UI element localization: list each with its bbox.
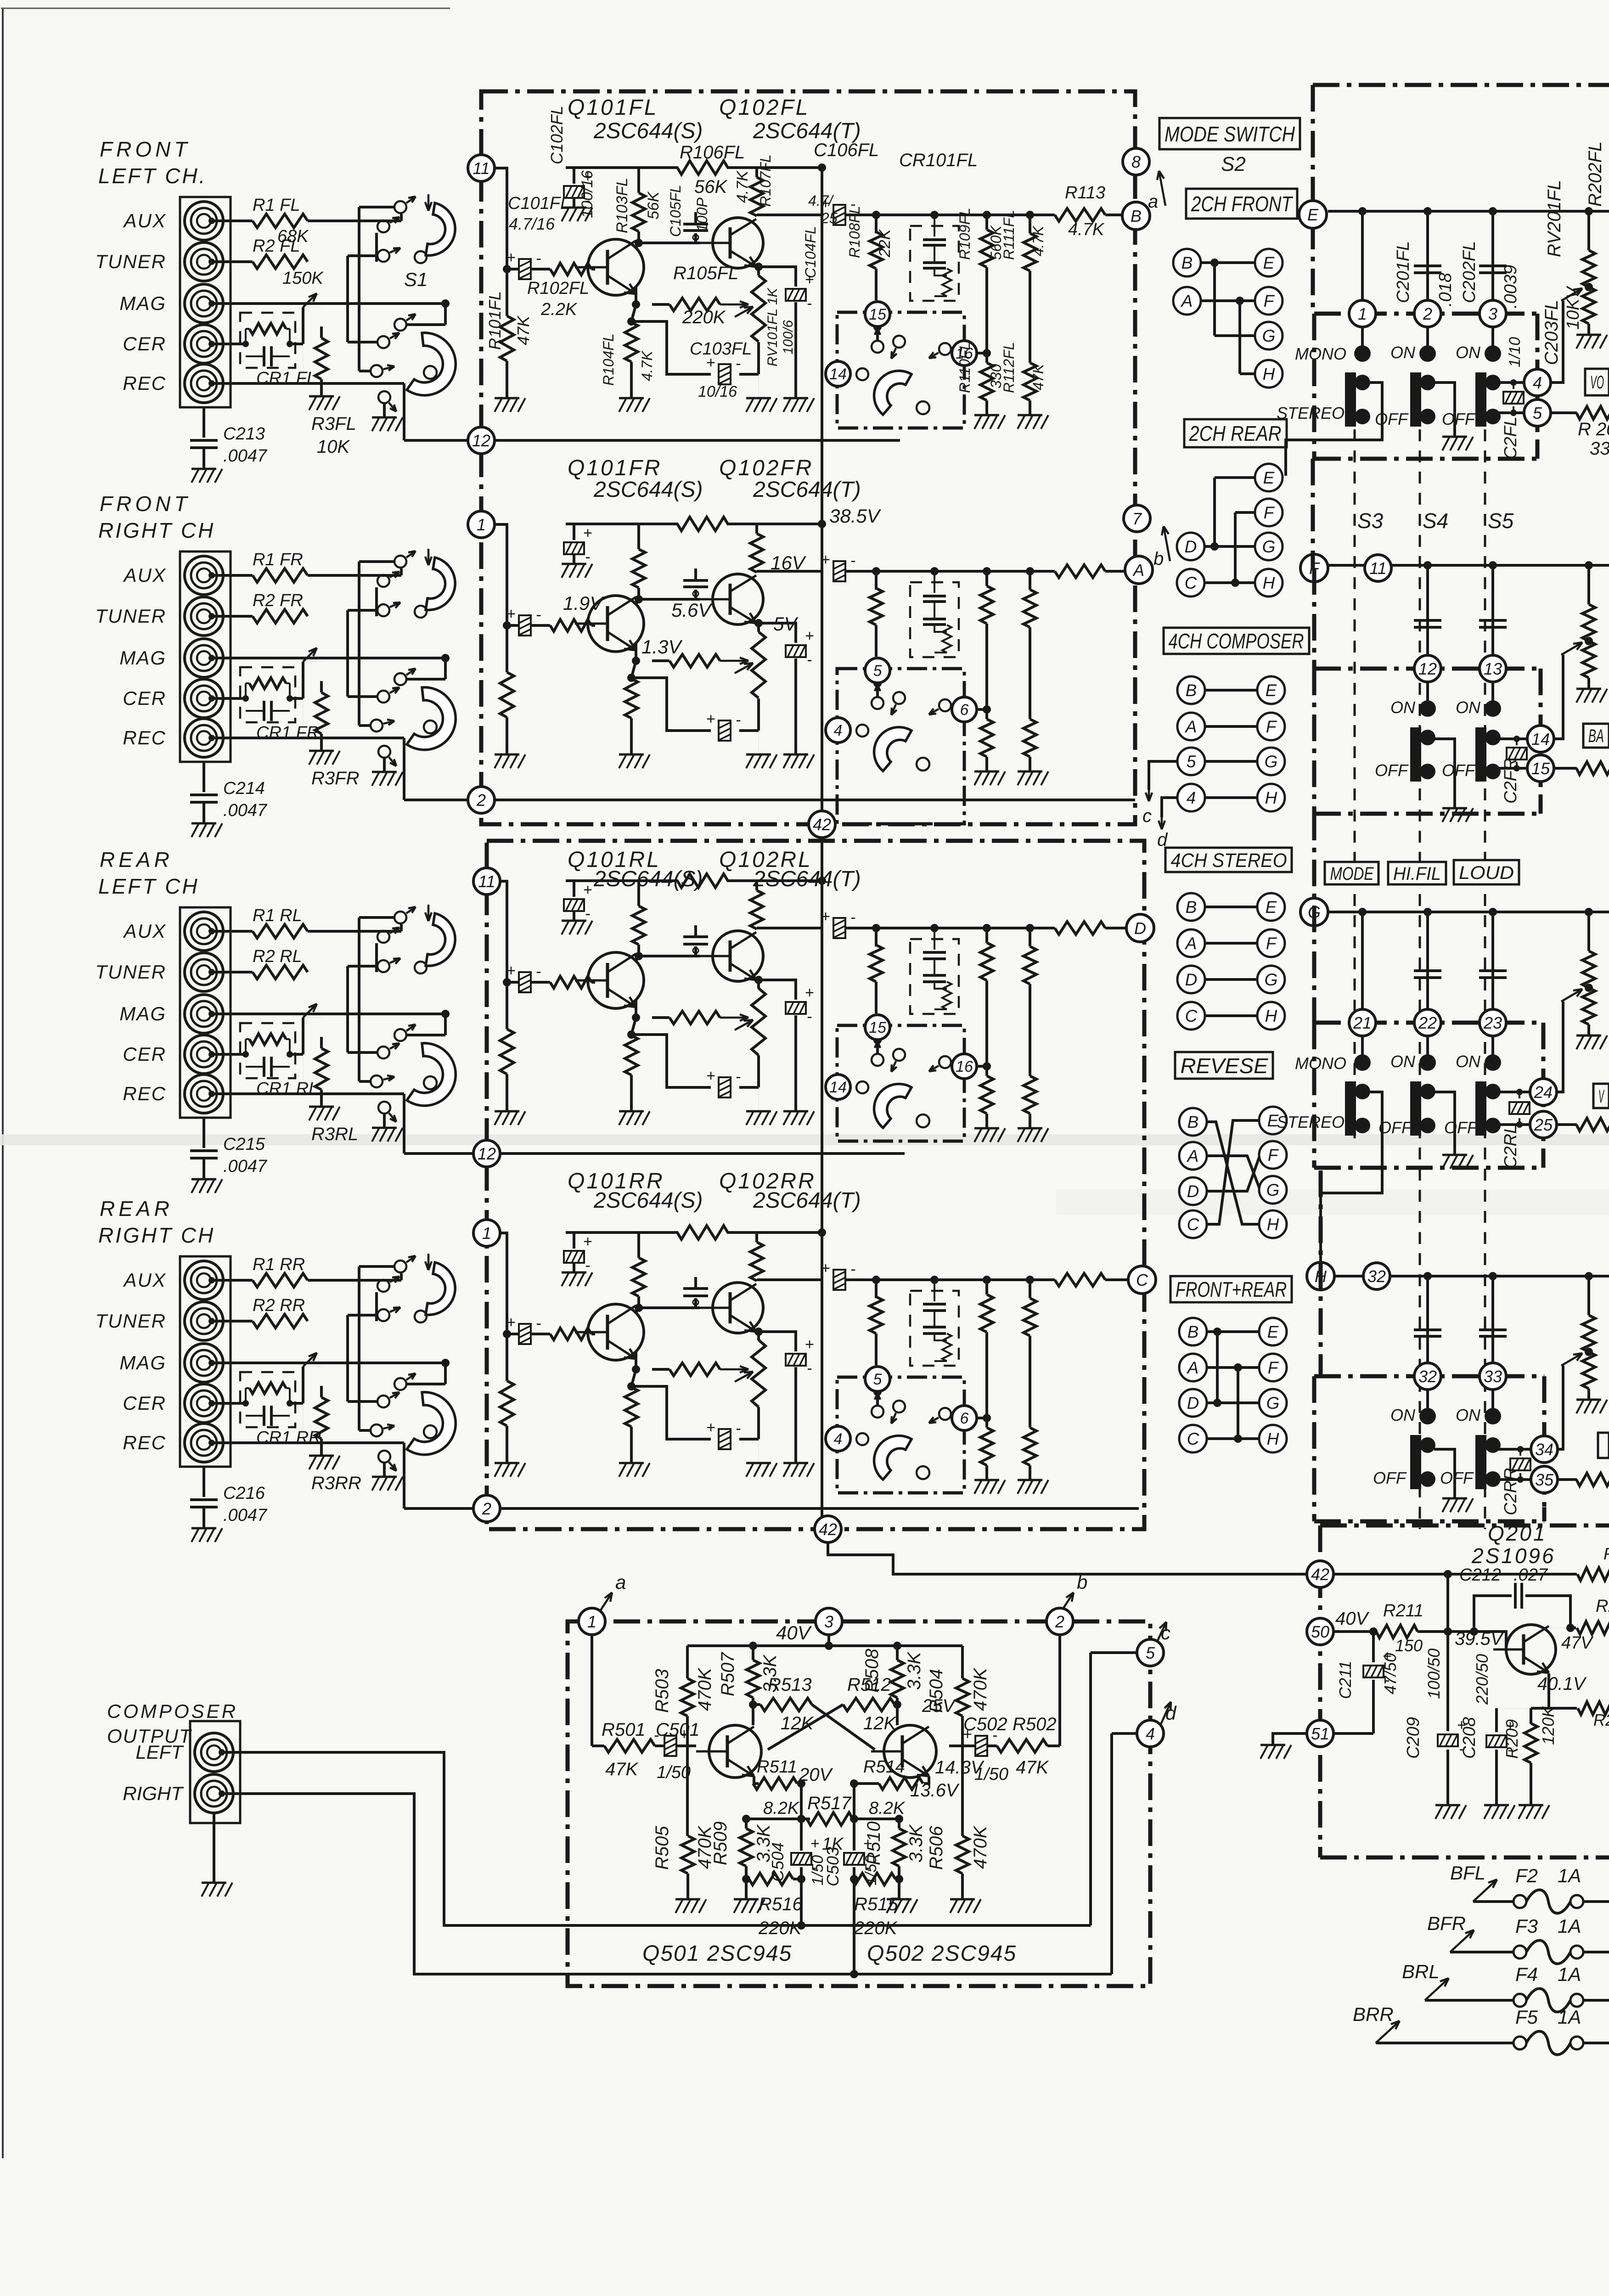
svg-text:H: H	[1265, 788, 1277, 807]
svg-text:R109FL: R109FL	[956, 208, 973, 260]
svg-text:BRL: BRL	[1402, 1961, 1440, 1982]
svg-text:c: c	[1142, 806, 1152, 826]
svg-text:E: E	[1307, 205, 1319, 224]
svg-text:15: 15	[869, 1019, 886, 1036]
svg-text:REVESE: REVESE	[1181, 1054, 1269, 1078]
svg-text:LEFT CH.: LEFT CH.	[98, 164, 207, 188]
svg-text:C2FR: C2FR	[1501, 758, 1520, 804]
svg-text:1/50: 1/50	[657, 1763, 691, 1782]
svg-text:56K: 56K	[694, 177, 728, 197]
svg-text:220K: 220K	[758, 1918, 803, 1938]
svg-text:3.3K: 3.3K	[906, 1823, 926, 1863]
svg-text:R110FL: R110FL	[956, 342, 973, 393]
svg-text:F3: F3	[1515, 1915, 1538, 1937]
svg-text:REC: REC	[123, 1432, 166, 1453]
svg-text:100/16: 100/16	[579, 170, 596, 218]
svg-text:C212: C212	[1459, 1565, 1501, 1585]
svg-text:Q102FL: Q102FL	[719, 96, 810, 120]
svg-text:MAG: MAG	[119, 1352, 166, 1373]
svg-text:R2 RL: R2 RL	[253, 947, 302, 966]
svg-text:R111FL: R111FL	[1001, 210, 1017, 260]
svg-text:4: 4	[834, 1430, 843, 1448]
svg-text:D: D	[1134, 919, 1146, 938]
svg-text:R103FL: R103FL	[613, 178, 631, 233]
svg-text:F4: F4	[1515, 1964, 1538, 1985]
svg-text:MAG: MAG	[119, 293, 166, 314]
svg-text:CER: CER	[123, 687, 166, 709]
svg-text:C2FL: C2FL	[1501, 416, 1520, 459]
svg-text:32: 32	[1367, 1267, 1386, 1286]
svg-text:A: A	[1185, 717, 1197, 736]
svg-text:OFF: OFF	[1378, 1118, 1412, 1137]
svg-text:V: V	[1598, 1086, 1604, 1107]
svg-text:42: 42	[819, 1520, 837, 1539]
svg-text:FRONT: FRONT	[100, 492, 191, 516]
svg-text:F2: F2	[1515, 1865, 1538, 1886]
svg-text:R112FL: R112FL	[1001, 342, 1017, 393]
svg-text:-: -	[807, 295, 812, 312]
svg-text:47/50: 47/50	[1381, 1653, 1400, 1694]
svg-text:C202FL: C202FL	[1460, 241, 1479, 303]
svg-text:C2RR: C2RR	[1501, 1468, 1520, 1515]
svg-text:C214: C214	[223, 779, 265, 798]
svg-text:1.9V: 1.9V	[563, 592, 604, 614]
svg-text:+: +	[506, 605, 516, 623]
svg-text:R1 FL: R1 FL	[253, 196, 300, 215]
svg-text:21: 21	[1353, 1013, 1372, 1032]
svg-text:+: +	[706, 710, 715, 728]
svg-text:39.5V: 39.5V	[1455, 1629, 1504, 1649]
svg-text:CER: CER	[123, 1043, 166, 1065]
svg-text:+: +	[506, 249, 516, 266]
svg-text:1A: 1A	[1558, 1865, 1581, 1886]
svg-text:14.3V: 14.3V	[935, 1757, 985, 1778]
svg-text:F: F	[1268, 1358, 1279, 1377]
svg-text:47K: 47K	[514, 315, 533, 345]
svg-text:1.3V: 1.3V	[641, 636, 683, 658]
svg-text:51: 51	[1311, 1724, 1329, 1743]
svg-text:40V: 40V	[776, 1622, 812, 1643]
svg-text:100P: 100P	[694, 197, 710, 232]
svg-text:40V: 40V	[1335, 1609, 1369, 1629]
svg-text:A: A	[1187, 1358, 1199, 1377]
svg-text:C: C	[1185, 1007, 1198, 1025]
svg-text:24: 24	[1534, 1083, 1553, 1102]
svg-text:2: 2	[1423, 304, 1432, 323]
svg-text:8.2K: 8.2K	[869, 1799, 906, 1818]
svg-text:6: 6	[960, 701, 969, 719]
svg-text:H: H	[1265, 1007, 1277, 1025]
svg-text:42: 42	[813, 815, 831, 834]
svg-text:.027: .027	[1513, 1565, 1548, 1585]
svg-text:R2: R2	[1603, 1544, 1609, 1563]
svg-text:LEFT CH: LEFT CH	[98, 874, 199, 898]
svg-text:E: E	[1263, 253, 1275, 272]
svg-text:13: 13	[1484, 659, 1502, 678]
svg-text:H: H	[1263, 574, 1275, 592]
svg-text:R511: R511	[757, 1757, 797, 1777]
svg-text:33: 33	[1590, 439, 1609, 459]
svg-text:.0039: .0039	[1501, 265, 1520, 309]
svg-text:15: 15	[869, 306, 886, 323]
svg-text:-: -	[736, 1068, 741, 1086]
svg-text:-: -	[536, 963, 541, 980]
svg-text:REC: REC	[123, 372, 166, 394]
svg-text:42: 42	[1311, 1565, 1329, 1584]
svg-text:LOUD: LOUD	[1459, 863, 1514, 883]
svg-text:470K: 470K	[970, 1825, 990, 1869]
svg-text:R107FL: R107FL	[757, 154, 774, 207]
svg-text:.0047: .0047	[223, 1157, 268, 1176]
svg-text:E: E	[1266, 681, 1277, 700]
svg-text:2SC644(T): 2SC644(T)	[753, 1188, 861, 1213]
svg-text:ON: ON	[1456, 1052, 1481, 1071]
svg-text:G: G	[1266, 1394, 1280, 1412]
svg-text:OFF: OFF	[1442, 410, 1476, 428]
svg-text:R505: R505	[652, 1826, 672, 1870]
svg-text:CR101FL: CR101FL	[899, 150, 978, 170]
svg-text:+: +	[821, 1260, 830, 1277]
svg-text:5: 5	[873, 1371, 882, 1388]
svg-text:ON: ON	[1390, 1406, 1416, 1424]
svg-text:4CH COMPOSER: 4CH COMPOSER	[1169, 629, 1304, 653]
svg-text:R513: R513	[768, 1675, 812, 1695]
svg-text:R3RR: R3RR	[311, 1473, 361, 1493]
svg-text:4.7/: 4.7/	[808, 192, 834, 209]
svg-text:ON: ON	[1390, 343, 1416, 362]
svg-text:2SC644(S): 2SC644(S)	[593, 1188, 703, 1213]
svg-text:+: +	[583, 881, 592, 899]
svg-text:MONO: MONO	[1295, 344, 1346, 363]
svg-text:R102FL: R102FL	[527, 279, 589, 298]
svg-text:12K: 12K	[781, 1713, 814, 1733]
svg-text:25: 25	[821, 210, 838, 226]
svg-text:4.7K: 4.7K	[734, 170, 751, 203]
svg-text:a: a	[1148, 191, 1158, 212]
svg-text:HI.FIL: HI.FIL	[1393, 864, 1441, 884]
svg-text:1A: 1A	[1558, 1964, 1581, 1985]
svg-text:RIGHT CH: RIGHT CH	[98, 1223, 215, 1247]
svg-text:C101FL: C101FL	[508, 194, 570, 213]
svg-text:ON: ON	[1390, 1052, 1416, 1071]
svg-text:B: B	[1186, 898, 1197, 917]
svg-text:5: 5	[1187, 752, 1196, 771]
svg-text:14: 14	[829, 366, 847, 383]
svg-text:Q102FR: Q102FR	[719, 456, 813, 480]
svg-text:.0047: .0047	[223, 1506, 268, 1525]
svg-text:-: -	[807, 1008, 812, 1025]
svg-text:+: +	[821, 551, 830, 568]
svg-text:F: F	[1264, 292, 1275, 310]
svg-text:C501: C501	[656, 1720, 700, 1740]
svg-text:R510: R510	[864, 1821, 884, 1865]
svg-text:G: G	[1266, 1181, 1280, 1199]
svg-text:4.7K: 4.7K	[1030, 225, 1046, 256]
svg-text:+: +	[583, 1233, 592, 1250]
svg-text:ON: ON	[1390, 698, 1416, 717]
svg-text:4: 4	[834, 722, 843, 739]
svg-text:3.3K: 3.3K	[904, 1651, 924, 1690]
svg-text:c: c	[1161, 1622, 1170, 1643]
svg-text:2S1096: 2S1096	[1471, 1544, 1556, 1568]
svg-text:1/10: 1/10	[1506, 337, 1524, 367]
svg-text:CR1 RR: CR1 RR	[256, 1428, 321, 1447]
svg-text:220/50: 220/50	[1473, 1654, 1491, 1705]
svg-text:TUNER: TUNER	[95, 1310, 166, 1332]
svg-text:11: 11	[478, 872, 495, 891]
svg-text:C209: C209	[1404, 1717, 1423, 1759]
svg-text:A: A	[1187, 1147, 1199, 1165]
svg-text:RV101FL 1K: RV101FL 1K	[765, 287, 780, 366]
svg-text:E: E	[1266, 898, 1277, 917]
svg-text:RIGHT CH: RIGHT CH	[98, 518, 215, 542]
svg-text:150K: 150K	[282, 269, 324, 288]
svg-text:R211: R211	[1383, 1601, 1423, 1621]
svg-text:+: +	[506, 1314, 516, 1331]
svg-text:CER: CER	[123, 333, 166, 355]
svg-text:4.7K: 4.7K	[639, 350, 655, 381]
svg-text:-: -	[536, 606, 541, 624]
svg-text:R1 RL: R1 RL	[253, 906, 302, 925]
svg-text:C211: C211	[1336, 1661, 1355, 1699]
svg-text:4.7K: 4.7K	[1068, 220, 1105, 239]
svg-text:F: F	[1264, 503, 1275, 522]
svg-text:R506: R506	[926, 1826, 946, 1870]
svg-text:2SC644(T): 2SC644(T)	[753, 867, 861, 891]
svg-text:5.6V: 5.6V	[671, 599, 713, 621]
svg-text:R516: R516	[759, 1894, 803, 1914]
svg-text:R3RL: R3RL	[311, 1124, 358, 1144]
svg-text:-: -	[807, 651, 812, 669]
svg-text:4: 4	[1533, 373, 1542, 392]
svg-text:+: +	[1506, 1717, 1515, 1735]
svg-text:OFF: OFF	[1444, 1118, 1478, 1137]
svg-text:OFF: OFF	[1375, 410, 1409, 428]
svg-text:1A: 1A	[1558, 1915, 1581, 1937]
svg-text:-: -	[736, 711, 741, 729]
svg-text:-: -	[850, 1261, 855, 1278]
svg-text:+: +	[810, 1835, 820, 1852]
svg-text:+: +	[821, 908, 830, 925]
svg-text:50: 50	[1311, 1622, 1329, 1641]
svg-text:CR1 RL: CR1 RL	[256, 1079, 318, 1098]
svg-text:S2: S2	[1221, 153, 1246, 175]
svg-text:C215: C215	[223, 1135, 265, 1154]
svg-text:BRR: BRR	[1353, 2003, 1394, 2025]
svg-text:2: 2	[476, 791, 486, 810]
svg-text:R104FL: R104FL	[600, 333, 617, 386]
svg-text:H: H	[1267, 1215, 1279, 1234]
svg-text:11: 11	[1369, 559, 1386, 578]
svg-text:MAG: MAG	[119, 647, 166, 669]
svg-text:CER: CER	[123, 1392, 166, 1414]
svg-text:2SC644(S): 2SC644(S)	[593, 478, 703, 502]
svg-text:-: -	[536, 250, 541, 267]
svg-text:C104FL: C104FL	[802, 226, 819, 278]
svg-text:H: H	[1267, 1429, 1279, 1448]
svg-text:-: -	[850, 552, 855, 569]
svg-text:STEREO: STEREO	[1277, 1113, 1345, 1131]
svg-text:A: A	[1181, 292, 1193, 310]
svg-text:56K: 56K	[645, 191, 662, 219]
svg-text:25V: 25V	[922, 1696, 956, 1716]
svg-text:R507: R507	[718, 1652, 738, 1696]
svg-text:C503: C503	[823, 1847, 842, 1886]
svg-text:C2RL: C2RL	[1501, 1124, 1520, 1169]
svg-text:AUX: AUX	[123, 1269, 166, 1291]
svg-text:3: 3	[824, 1612, 833, 1631]
svg-text:TUNER: TUNER	[95, 605, 166, 627]
svg-text:R503: R503	[652, 1669, 672, 1713]
svg-text:B: B	[1181, 253, 1193, 272]
svg-text:RV201FL: RV201FL	[1544, 180, 1564, 257]
svg-text:3.3K: 3.3K	[754, 1823, 774, 1863]
svg-text:R3FR: R3FR	[311, 768, 359, 788]
svg-text:R1 FR: R1 FR	[253, 550, 303, 569]
svg-text:2SC644(T): 2SC644(T)	[753, 478, 861, 502]
svg-text:G: G	[1265, 970, 1278, 989]
svg-text:1: 1	[1358, 304, 1367, 323]
svg-text:14: 14	[829, 1079, 847, 1096]
svg-text:1A: 1A	[1558, 2006, 1581, 2028]
svg-text:-: -	[536, 1315, 541, 1332]
svg-text:7: 7	[1132, 509, 1142, 528]
svg-text:VO: VO	[1590, 372, 1604, 393]
svg-text:22: 22	[1418, 1013, 1437, 1032]
svg-text:AUX: AUX	[123, 920, 166, 942]
svg-text:+: +	[583, 524, 592, 542]
svg-text:E: E	[1263, 468, 1275, 487]
svg-text:C: C	[1187, 1215, 1199, 1234]
svg-text:Q101FR: Q101FR	[568, 456, 662, 480]
svg-text:+: +	[706, 1419, 715, 1436]
svg-text:ON: ON	[1456, 343, 1481, 362]
svg-text:R106FL: R106FL	[680, 142, 745, 163]
svg-text:R2: R2	[1596, 1597, 1609, 1616]
svg-text:47K: 47K	[605, 1759, 639, 1779]
svg-text:2SC644(S): 2SC644(S)	[593, 867, 703, 891]
svg-text:11: 11	[473, 159, 489, 178]
svg-text:34: 34	[1535, 1440, 1553, 1459]
svg-text:47K: 47K	[1030, 363, 1046, 390]
svg-text:S5: S5	[1488, 509, 1514, 533]
svg-text:2: 2	[1055, 1612, 1064, 1631]
svg-text:B: B	[1186, 681, 1197, 700]
svg-text:R517: R517	[807, 1793, 852, 1813]
svg-text:150: 150	[1395, 1636, 1423, 1655]
svg-text:b: b	[1077, 1571, 1087, 1593]
svg-text:C213: C213	[223, 424, 265, 444]
svg-text:B: B	[1187, 1322, 1199, 1341]
svg-text:COMPOSER: COMPOSER	[107, 1700, 238, 1722]
svg-text:F5: F5	[1515, 2006, 1538, 2028]
svg-text:-: -	[1508, 1741, 1513, 1759]
svg-text:A: A	[1185, 934, 1197, 953]
svg-text:+: +	[706, 1067, 715, 1085]
svg-text:5: 5	[1533, 404, 1542, 422]
svg-text:6: 6	[960, 1410, 969, 1427]
svg-text:12: 12	[472, 431, 490, 450]
svg-text:+: +	[805, 984, 814, 1002]
svg-text:REAR: REAR	[100, 1197, 173, 1221]
svg-text:D: D	[1185, 537, 1197, 556]
svg-text:BA: BA	[1588, 726, 1604, 746]
svg-text:12: 12	[1418, 659, 1437, 678]
svg-text:G: G	[1265, 752, 1278, 771]
svg-text:CR1 FR: CR1 FR	[256, 723, 319, 743]
svg-text:REC: REC	[123, 727, 166, 748]
svg-text:FRONT: FRONT	[100, 137, 191, 161]
svg-text:ON: ON	[1456, 1406, 1481, 1424]
svg-text:22K: 22K	[876, 229, 894, 258]
svg-text:10K: 10K	[317, 437, 350, 457]
svg-text:R113: R113	[1065, 183, 1105, 203]
svg-text:MODE SWITCH: MODE SWITCH	[1165, 122, 1295, 146]
svg-text:REAR: REAR	[100, 848, 173, 872]
svg-text:OFF: OFF	[1442, 761, 1476, 780]
svg-text:10/16: 10/16	[698, 383, 737, 400]
svg-text:FRONT+REAR: FRONT+REAR	[1176, 1277, 1287, 1301]
svg-text:R3FL: R3FL	[311, 414, 356, 434]
svg-text:R2 FL: R2 FL	[253, 236, 300, 256]
svg-text:12: 12	[478, 1144, 496, 1163]
svg-text:R 20: R 20	[1578, 419, 1609, 439]
svg-text:C216: C216	[223, 1484, 265, 1503]
svg-text:OFF: OFF	[1375, 761, 1409, 780]
svg-text:+: +	[506, 962, 516, 979]
svg-text:R514: R514	[863, 1757, 905, 1777]
svg-text:220K: 220K	[682, 307, 726, 327]
svg-text:4CH STEREO: 4CH STEREO	[1171, 850, 1287, 872]
svg-text:40.1V: 40.1V	[1537, 1674, 1587, 1694]
svg-text:R108FL: R108FL	[846, 206, 863, 258]
svg-text:R508: R508	[862, 1649, 882, 1693]
svg-text:C: C	[1136, 1271, 1148, 1289]
svg-text:R202FL: R202FL	[1585, 141, 1605, 207]
svg-text:H: H	[1263, 365, 1275, 383]
svg-text:R105FL: R105FL	[673, 263, 738, 283]
svg-text:F: F	[1266, 934, 1277, 953]
svg-text:23: 23	[1483, 1013, 1502, 1032]
svg-text:47K: 47K	[1016, 1757, 1049, 1778]
svg-text:b: b	[1153, 549, 1164, 569]
svg-text:4: 4	[1187, 788, 1196, 807]
svg-text:C105FL: C105FL	[667, 185, 684, 237]
svg-text:D: D	[1185, 970, 1198, 989]
svg-text:8: 8	[1131, 152, 1141, 171]
svg-text:15: 15	[1531, 759, 1550, 778]
svg-text:+: +	[805, 627, 814, 645]
svg-text:Q501 2SC945: Q501 2SC945	[642, 1941, 792, 1966]
svg-text:14: 14	[1531, 730, 1550, 748]
svg-text:R2: R2	[1593, 1711, 1609, 1729]
svg-text:LEFT: LEFT	[135, 1741, 184, 1763]
svg-text:38.5V: 38.5V	[829, 505, 882, 527]
svg-text:25: 25	[1534, 1115, 1553, 1134]
svg-text:.0047: .0047	[223, 446, 268, 466]
svg-text:12K: 12K	[863, 1713, 897, 1733]
svg-text:2CH REAR: 2CH REAR	[1189, 422, 1282, 445]
svg-text:5V: 5V	[773, 613, 799, 635]
svg-text:G: G	[1262, 326, 1276, 345]
svg-text:F: F	[1268, 1146, 1279, 1165]
svg-text:BFR: BFR	[1427, 1913, 1466, 1934]
svg-text:5: 5	[873, 662, 882, 680]
svg-text:10KV: 10KV	[1564, 285, 1583, 330]
svg-text:-: -	[807, 1360, 812, 1377]
svg-text:ON: ON	[1456, 698, 1481, 717]
svg-text:2CH FRONT: 2CH FRONT	[1191, 192, 1293, 216]
